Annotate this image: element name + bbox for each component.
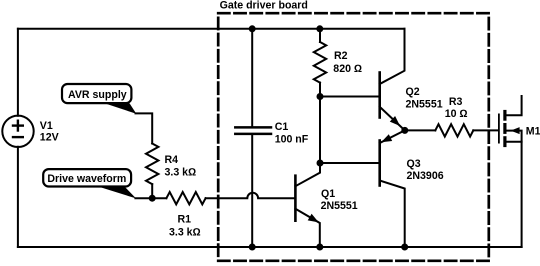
svg-text:820 Ω: 820 Ω [333, 63, 362, 75]
resistor R1 [166, 192, 205, 204]
svg-text:100 nF: 100 nF [275, 134, 309, 146]
label Drive waveform [43, 169, 131, 186]
junction dot Q3 collector / bottom rail [401, 244, 408, 251]
svg-text:Gate driver board: Gate driver board [220, 0, 308, 12]
svg-text:Q3: Q3 [407, 158, 421, 170]
svg-text:V1: V1 [40, 120, 53, 132]
resistor R3 [435, 124, 473, 136]
arrow Q3 emitter [381, 134, 392, 142]
transistor Q1 [294, 176, 297, 221]
junction dot top rail / R2 [316, 25, 323, 32]
wire drive waveform [135, 197, 166, 199]
svg-text:12V: 12V [40, 132, 59, 144]
svg-text:R4: R4 [165, 154, 179, 166]
svg-text:C1: C1 [275, 121, 289, 133]
wire AVR supply to R4 [136, 113, 153, 143]
svg-text:2N5551: 2N5551 [406, 99, 443, 111]
junction dot Q1 collector / Q3 base [317, 160, 324, 167]
wire node to R3 [405, 129, 436, 131]
svg-text:10 Ω: 10 Ω [445, 108, 468, 120]
label AVR supply [62, 84, 131, 103]
resistor R4 [146, 144, 158, 185]
svg-text:M1: M1 [526, 125, 540, 137]
wire Q3 base [320, 162, 379, 164]
svg-text:2N3906: 2N3906 [407, 170, 444, 182]
svg-text:Drive waveform: Drive waveform [47, 173, 126, 185]
wire R4 bottom [151, 184, 153, 198]
arrow Q1 emitter [308, 214, 319, 223]
capacitor C1 [251, 29, 253, 126]
wire R1 to Q1 base with hop over C1 [206, 193, 295, 198]
svg-text:3.3 kΩ: 3.3 kΩ [169, 226, 201, 238]
voltage source V1 [2, 116, 33, 147]
svg-text:R3: R3 [449, 96, 463, 108]
svg-text:Q2: Q2 [406, 86, 420, 98]
arrow M1 body [511, 127, 520, 134]
junction dot R4 bottom / drive wire [149, 195, 156, 202]
transistor Q2 [378, 73, 381, 118]
junction dot top rail / C1 [249, 25, 256, 32]
svg-text:AVR supply: AVR supply [68, 89, 127, 101]
svg-text:R1: R1 [178, 214, 192, 226]
svg-text:3.3 kΩ: 3.3 kΩ [165, 167, 197, 179]
junction dot Q1 emitter / bottom rail [316, 244, 323, 251]
wire top rail [18, 28, 405, 30]
svg-text:R2: R2 [334, 50, 348, 62]
wire node link R2/Q1 [319, 97, 321, 164]
wire left rail upper [17, 29, 19, 116]
wire bottom rail [18, 246, 522, 248]
junction dot Q2/Q3 emitters / R3 [401, 127, 408, 134]
svg-text:Q1: Q1 [321, 188, 335, 200]
wire Q2 base [320, 96, 379, 98]
arrow Q2 emitter [390, 116, 400, 126]
svg-text:2N5551: 2N5551 [321, 200, 358, 212]
junction dot R2 bottom / Q2 base [317, 93, 324, 100]
transistor Q3 [378, 141, 381, 186]
callout pointer Drive waveform [97, 186, 137, 198]
mosfet M1 [498, 114, 500, 142]
junction dot C1 bottom / bottom rail [249, 244, 256, 251]
wire R3 to M1 gate [473, 129, 498, 131]
callout pointer AVR supply [105, 103, 137, 114]
wire left rail lower [17, 147, 19, 247]
dashed box Gate driver board [218, 13, 489, 261]
resistor R2 [319, 29, 321, 42]
